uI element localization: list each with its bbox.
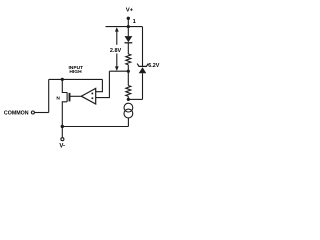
terminal COMMON — [31, 111, 34, 114]
wire gate lead — [70, 95, 82, 97]
node V- junction — [61, 125, 64, 128]
wire D1 to R1 — [127, 43, 129, 54]
wire V- stub — [61, 127, 63, 138]
svg-text:1: 1 — [133, 19, 137, 25]
node drain junction — [61, 78, 64, 81]
resistor R1 — [126, 54, 131, 65]
svg-text:V-: V- — [59, 144, 65, 150]
diode D1 — [125, 36, 133, 43]
svg-text:2.8V: 2.8V — [110, 48, 122, 54]
wire drain rail — [49, 78, 103, 80]
terminal V- — [61, 138, 64, 141]
svg-text:V+: V+ — [126, 8, 134, 14]
wire top rail — [106, 26, 143, 28]
svg-text:N: N — [56, 95, 60, 101]
dimension arrow 2.8V — [115, 27, 119, 71]
wire R1 to node — [127, 65, 129, 71]
wire bottom rail — [62, 126, 128, 128]
op-amp A1 comparator — [81, 88, 95, 104]
svg-text:6.2V: 6.2V — [148, 63, 159, 69]
wire zener branch upper — [142, 27, 144, 67]
wire zener branch lower — [142, 73, 144, 99]
node junction top — [127, 25, 130, 28]
resistor R2 — [126, 86, 131, 97]
wire inverting input — [96, 71, 110, 97]
wire node line — [109, 70, 128, 72]
terminal V+ — [127, 17, 130, 20]
node junction bottom — [127, 98, 130, 101]
svg-text:HIGH: HIGH — [69, 69, 82, 75]
current source I1 — [124, 103, 133, 118]
wire node to R2 — [127, 71, 129, 85]
svg-text:COMMON: COMMON — [4, 110, 29, 116]
wire left riser — [48, 79, 50, 112]
wire R2 to node2 — [127, 96, 129, 99]
transistor Q1 N-channel MOSFET — [62, 79, 69, 126]
zener diode D2 6.2V — [137, 64, 148, 74]
wire main branch upper — [127, 27, 129, 37]
wire current source to bottom rail — [127, 118, 129, 127]
node 2.8V tap — [127, 70, 130, 73]
wire node2 to zener branch — [128, 98, 142, 100]
wire noninverting input — [96, 79, 103, 91]
wire V+ stem — [127, 18, 129, 26]
wire common lead — [34, 112, 48, 114]
